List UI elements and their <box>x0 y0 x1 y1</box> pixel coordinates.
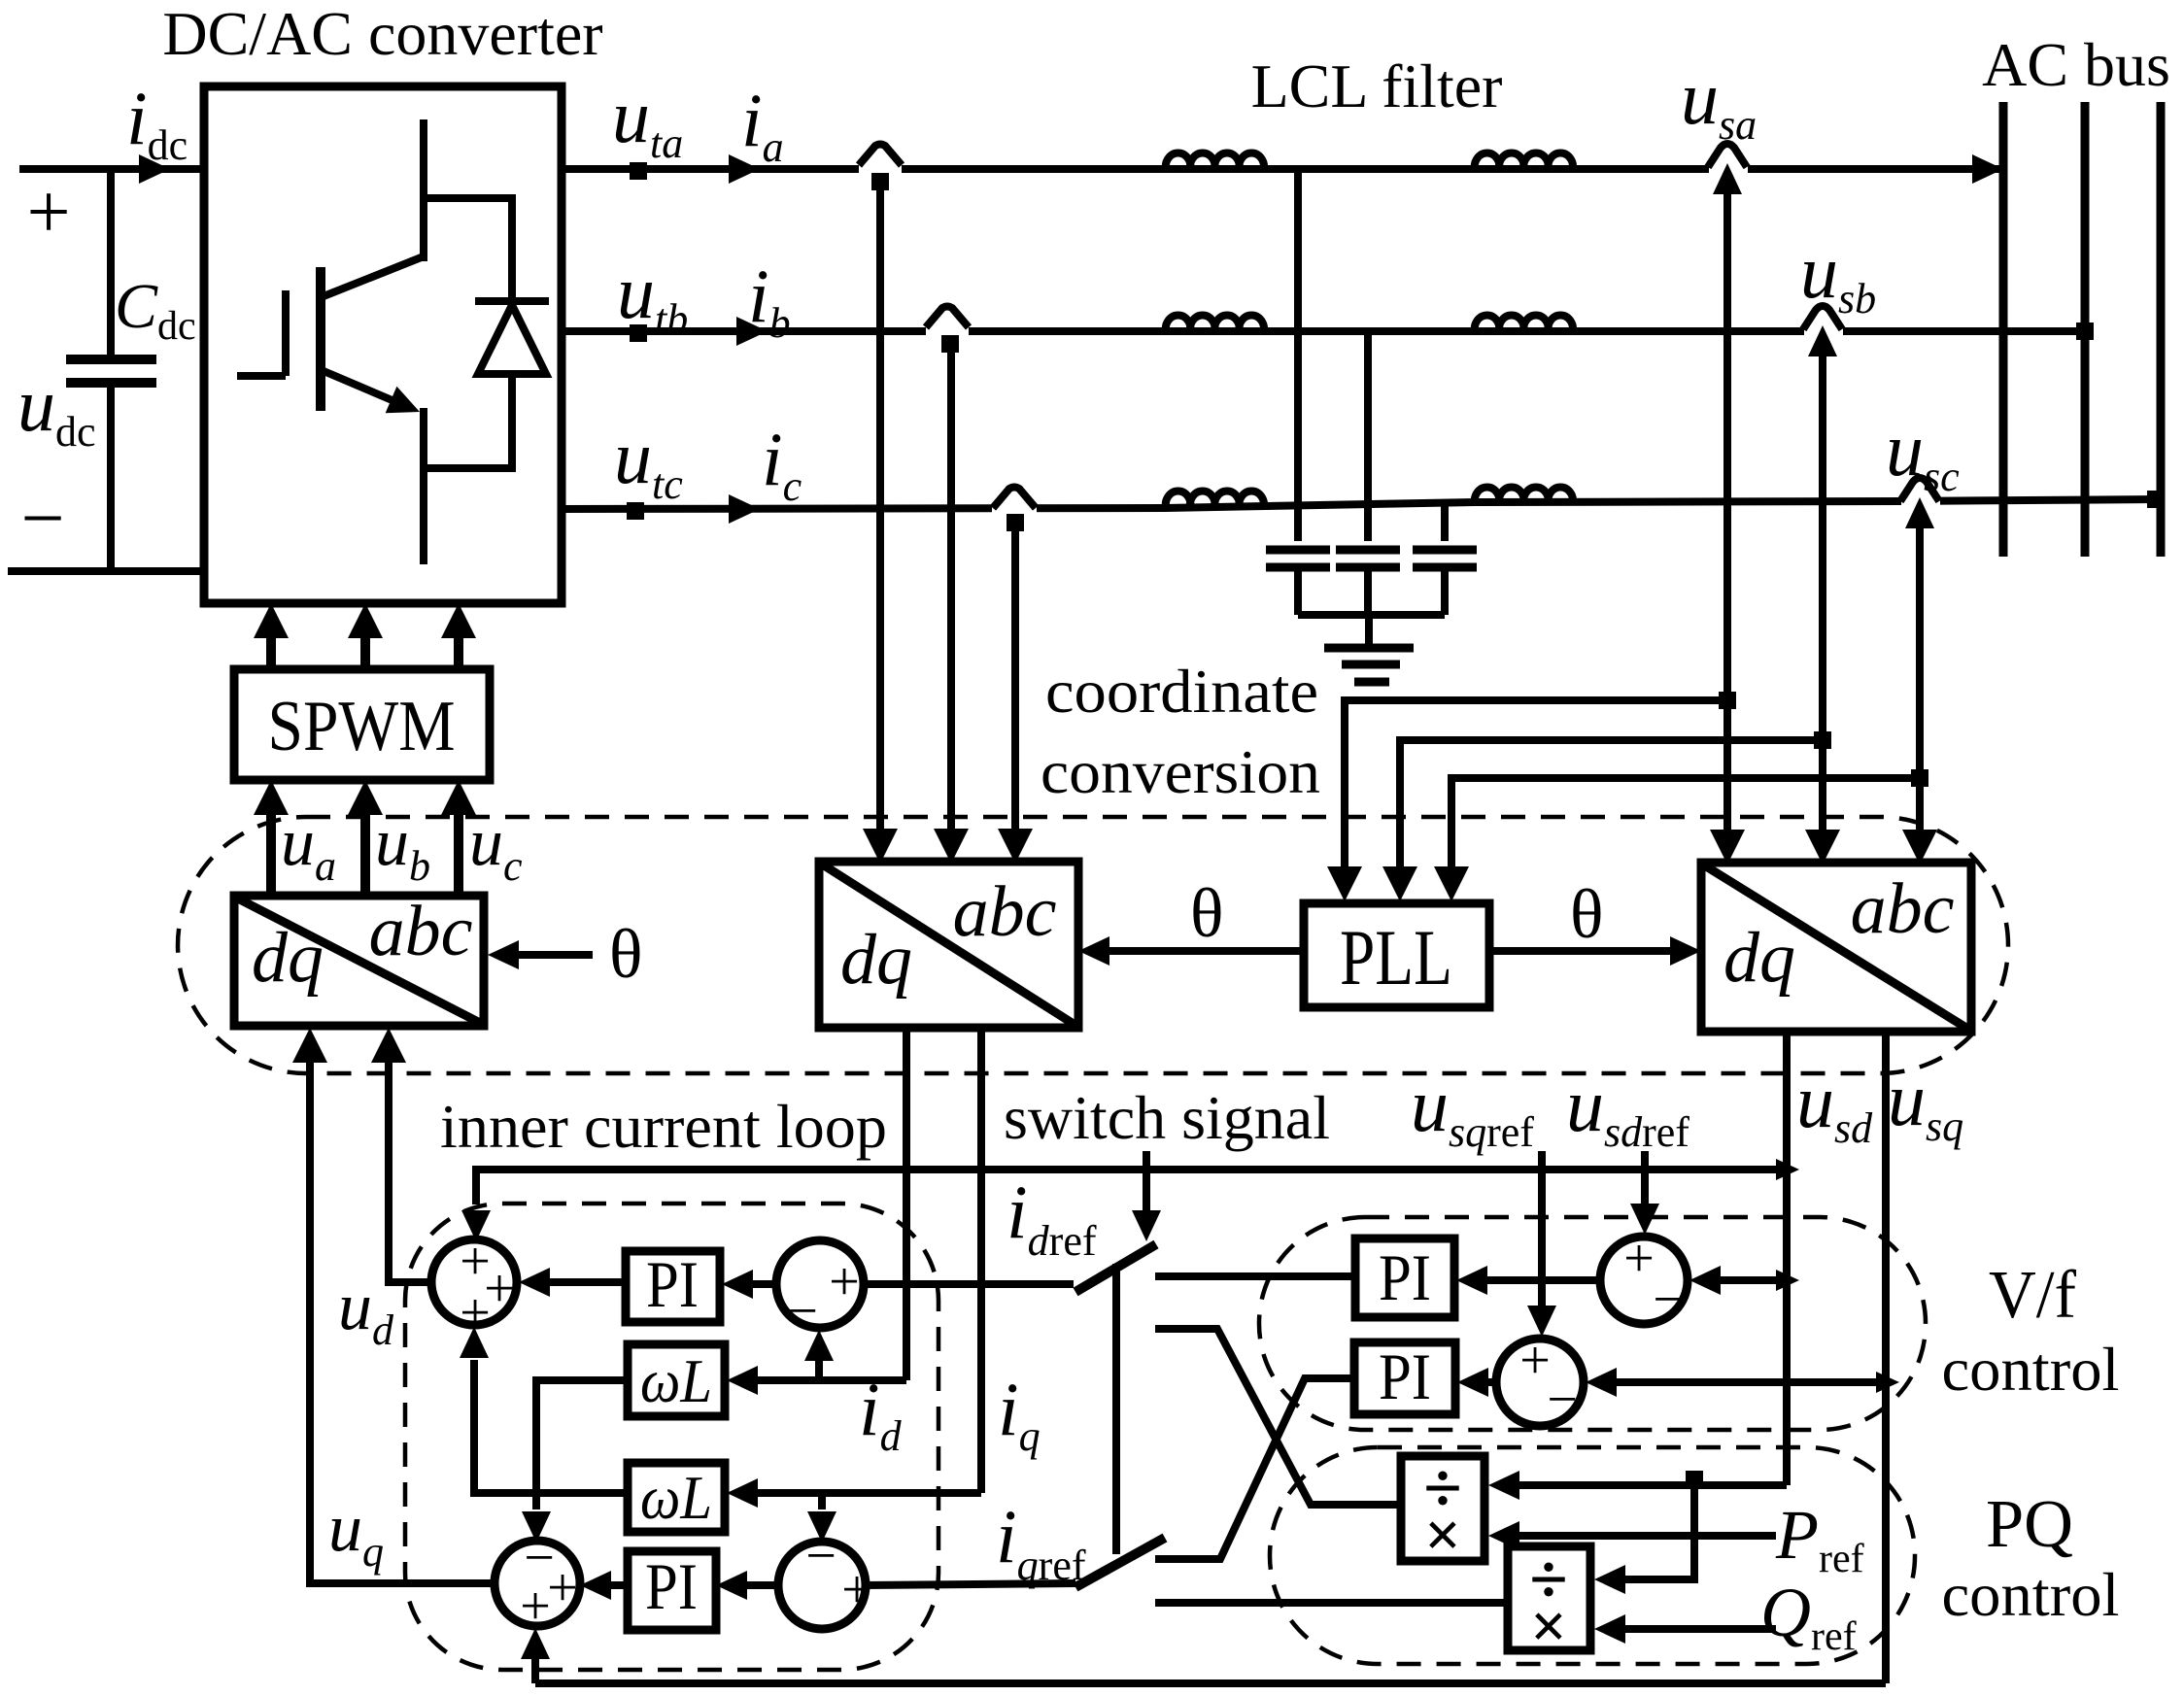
dashed region coordinate conversion <box>178 817 2008 1073</box>
converter box U1 <box>204 86 562 603</box>
switch i_dref blade <box>1075 1244 1156 1292</box>
wire u_sb to PLL elbow <box>1400 740 1823 868</box>
arrow i_c into abc/dq <box>998 829 1033 864</box>
arrow i_b into abc/dq <box>934 829 969 864</box>
wire diode top connection <box>424 198 512 303</box>
wire V/f subtractor 1 to PI <box>1487 1276 1600 1284</box>
switch gang link <box>1112 1264 1120 1554</box>
current sensor bump phase B <box>926 323 969 339</box>
subtractor q <box>778 1542 866 1629</box>
voltage sensor bump u_sa <box>1709 161 1748 177</box>
arrow u_sa into right abc/dq <box>1710 830 1745 865</box>
block PQ divider 1 <box>1401 1449 1484 1571</box>
block PI q-axis <box>628 1551 716 1630</box>
arrow u_sc into right abc/dq <box>1902 830 1937 865</box>
wire u_sq feedforward bottom line <box>535 1679 1886 1687</box>
node phase B bus dot <box>2076 322 2094 340</box>
arrow u_sc up <box>1905 497 1934 528</box>
transistor Q1 IGBT collector lead <box>420 119 427 261</box>
wire u_sb measurement line <box>1819 353 1826 831</box>
wire subtractor d to PI_d <box>753 1280 776 1288</box>
svg-text:+: + <box>26 170 70 255</box>
wire i_c measurement line <box>1011 523 1019 831</box>
summing junction d <box>431 1239 517 1325</box>
arrow ub into SPWM <box>360 813 370 896</box>
wire Q_ref into divider 2 <box>1625 1625 1776 1633</box>
arrow u_sq junction at V/f <box>1876 1372 1899 1393</box>
wire subtractor q to PI_q <box>747 1581 778 1589</box>
arrow i_b direction <box>736 317 768 346</box>
arrow i_a into abc/dq <box>863 829 898 864</box>
svg-text:V/f: V/f <box>1989 1258 2077 1333</box>
svg-text:θ: θ <box>609 915 643 993</box>
svg-text:ωL: ωL <box>640 1463 712 1532</box>
wire i_q into omega-L 2 <box>758 1489 981 1497</box>
wire u_sd branch down to divider 2 <box>1625 1485 1694 1579</box>
arrow u_q into left dq box <box>292 1028 327 1063</box>
current sensor bump phase C <box>992 500 1037 516</box>
transistor Q1 emitter arrow <box>386 387 426 425</box>
arrow i_c direction <box>729 494 760 524</box>
wire sum q bottom input <box>531 1659 539 1683</box>
AC bus bar 3 <box>2157 102 2166 557</box>
inductor Lb2 <box>1475 316 1573 331</box>
node u_sc junction dot <box>1911 769 1928 787</box>
svg-text:+: + <box>547 1558 578 1618</box>
transistor Q1 gate lead <box>237 372 286 380</box>
V/f subtractor 1 <box>1600 1237 1688 1324</box>
svg-text:PLL: PLL <box>1340 913 1452 1001</box>
arrow u_sc into PLL <box>1434 866 1469 901</box>
LCL capacitor Ca <box>1266 550 1330 567</box>
node u_ta tap dot <box>630 162 647 180</box>
wire DC negative rail <box>8 567 204 575</box>
arrow switch signal <box>1143 1151 1150 1210</box>
svg-text:abc: abc <box>1851 869 1955 949</box>
wire PI_d to sum d <box>550 1278 626 1286</box>
arrow SPWM to converter c <box>454 635 463 669</box>
block middle abc/dq <box>819 862 1078 1028</box>
arrow u_sd feedforward junction <box>1776 1159 1799 1180</box>
arrow i_a direction <box>729 154 760 184</box>
LCL capacitor Cc <box>1413 550 1477 567</box>
block omega-L 2 <box>628 1463 725 1532</box>
wire i_d into omega-L 1 <box>758 1376 906 1384</box>
wire i_d into subtractor d bottom <box>815 1359 823 1380</box>
svg-text:abc: abc <box>369 892 473 971</box>
arrow u_d into left dq box <box>371 1028 406 1063</box>
arrow into sum d top <box>461 1210 491 1241</box>
wire i_dref into subtractor d <box>864 1280 1074 1288</box>
svg-text:control: control <box>1942 1335 2120 1404</box>
node u_sb junction dot <box>1814 731 1831 749</box>
svg-text:switch signal: switch signal <box>1004 1084 1330 1152</box>
block V/f PI 2 <box>1354 1342 1455 1414</box>
block V/f PI 1 <box>1355 1238 1454 1317</box>
LCL capacitor Cb <box>1336 550 1400 567</box>
svg-text:ωL: ωL <box>640 1346 712 1415</box>
wire u_q output <box>310 1063 495 1583</box>
wire capacitor Ca bottom stub <box>1294 567 1302 615</box>
node phase B capacitor tap <box>1364 331 1372 541</box>
wire u_sd tap into V/f subtractor 1 <box>1721 1276 1787 1284</box>
svg-text:AC bus: AC bus <box>1982 30 2170 99</box>
wire u_sq from right box <box>1882 1032 1890 1683</box>
svg-text:+: + <box>829 1252 860 1312</box>
wire V/f subtractor 2 to PI 2 <box>1488 1378 1496 1386</box>
wire diode bottom connection <box>424 374 512 468</box>
svg-text:+: + <box>520 1577 551 1637</box>
switch i_dref upper contact from V/f PI <box>1155 1272 1355 1280</box>
block omega-L 1 <box>628 1344 725 1416</box>
svg-text:PQ: PQ <box>1986 1487 2073 1562</box>
arrow uc into SPWM <box>454 813 463 896</box>
inductor La2 <box>1475 153 1573 169</box>
block right abc/dq <box>1701 863 1971 1032</box>
wire capacitor common bus <box>1298 611 1445 619</box>
wire u_sc measurement line <box>1916 524 1924 831</box>
inductor La1 <box>1166 153 1264 169</box>
block PLL <box>1304 903 1489 1007</box>
wire omega-L 2 output to sum d <box>474 1360 628 1493</box>
arrow u_sa up <box>1713 163 1742 194</box>
wire u_sa to PLL elbow <box>1345 700 1727 868</box>
wire capacitor bottom lead <box>107 383 115 571</box>
node phase C capacitor tap <box>1441 503 1449 541</box>
wire DC positive rail <box>19 165 204 173</box>
wire i_q from middle box <box>977 1028 985 1493</box>
switch i_dref lower contact diagonal from PQ divider <box>1155 1329 1401 1505</box>
wire u_sd feedforward top line <box>476 1170 1787 1204</box>
svg-text:−: − <box>787 1281 818 1341</box>
svg-text:×: × <box>1530 1591 1567 1662</box>
dashed region V/f control <box>1259 1217 1926 1430</box>
inductor Lc1 <box>1166 492 1264 507</box>
node i_b sensor dot <box>941 335 959 353</box>
svg-text:LCL filter: LCL filter <box>1251 51 1503 120</box>
block PQ divider 2 <box>1508 1541 1590 1662</box>
svg-text:inner current loop: inner current loop <box>440 1093 887 1161</box>
wire u_sa measurement line <box>1723 190 1731 831</box>
svg-text:PI: PI <box>1379 1240 1431 1314</box>
wire i_b measurement line <box>947 344 955 831</box>
inductor Lb1 <box>1166 316 1264 331</box>
arrow u_sa into PLL <box>1327 866 1362 901</box>
transistor Q1 gate bar <box>282 290 290 376</box>
svg-text:θ: θ <box>1190 874 1224 952</box>
wire phase A <box>562 165 2003 173</box>
block left dq/abc <box>234 892 484 1026</box>
voltage sensor bump u_sb <box>1804 323 1843 339</box>
voltage sensor bump u_sc <box>1901 493 1940 509</box>
svg-text:−: − <box>20 476 64 561</box>
node u_tb tap dot <box>630 324 647 342</box>
arrow u_sb into right abc/dq <box>1805 830 1840 865</box>
switch i_qref blade <box>1075 1538 1165 1587</box>
wire u_sc to PLL elbow <box>1451 778 1920 868</box>
switch i_qref upper contact diagonal from V/f PI2 <box>1155 1378 1354 1559</box>
diode D1 triangle <box>478 305 546 374</box>
wire u_sd into divider 1 <box>1519 1481 1787 1489</box>
svg-text:control: control <box>1942 1560 2120 1629</box>
svg-text:PI: PI <box>646 1247 699 1321</box>
node phase A capacitor tap <box>1294 169 1302 541</box>
wire PI_q to sum q <box>611 1581 628 1589</box>
svg-text:−: − <box>805 1526 836 1586</box>
arrow phase A into AC bus <box>1972 154 2003 184</box>
arrow ua into SPWM <box>266 813 276 896</box>
wire u_d output <box>389 1063 431 1282</box>
wire capacitor Cc bottom stub <box>1441 567 1449 615</box>
node u_sa junction dot <box>1719 692 1736 709</box>
wire capacitor top lead <box>107 169 115 359</box>
diode D1 cathode bar <box>475 297 549 305</box>
node phase C bus dot <box>2147 491 2165 508</box>
svg-text:dq: dq <box>840 920 912 1000</box>
svg-text:dq: dq <box>252 918 324 998</box>
svg-text:θ: θ <box>1570 875 1604 953</box>
block SPWM <box>234 669 490 780</box>
switch i_qref lower contact from PQ divider 2 <box>1155 1599 1508 1607</box>
wire u_sqref down <box>1538 1151 1546 1306</box>
wire PLL theta to right box <box>1489 947 1670 955</box>
svg-text:+: + <box>841 1560 872 1620</box>
transistor Q1 emitter diagonal <box>324 371 408 407</box>
wire PLL theta to middle box <box>1109 947 1304 955</box>
wire phase B <box>562 327 2085 335</box>
svg-text:abc: abc <box>953 872 1057 952</box>
svg-text:PI: PI <box>645 1549 698 1623</box>
wire i_qref into subtractor q <box>866 1583 1075 1585</box>
wire phase C <box>562 499 2159 509</box>
arrow u_sb into PLL <box>1382 866 1417 901</box>
node u_tc tap dot <box>627 502 644 520</box>
svg-text:PI: PI <box>1379 1340 1431 1413</box>
block PI d-axis <box>626 1251 720 1322</box>
wire P_ref into divider 1 <box>1519 1532 1776 1540</box>
wire i_d from middle box <box>903 1028 910 1380</box>
inductor Lc2 <box>1475 488 1573 503</box>
svg-text:×: × <box>1424 1500 1461 1571</box>
current sensor bump phase A <box>859 161 902 177</box>
AC bus bar 2 <box>2081 102 2090 557</box>
svg-text:dq: dq <box>1723 918 1795 998</box>
AC bus bar 1 <box>1999 102 2008 557</box>
transistor Q1 emitter lead <box>420 408 427 564</box>
subtractor d <box>776 1240 864 1328</box>
arrow theta into left dq/abc <box>519 951 593 959</box>
svg-text:coordinate: coordinate <box>1045 658 1318 726</box>
capacitor Cdc <box>66 355 156 364</box>
dashed region inner current loop <box>405 1204 938 1670</box>
svg-text:conversion: conversion <box>1041 738 1320 806</box>
node i_a sensor dot <box>871 173 889 190</box>
transistor Q1 collector diagonal <box>324 256 424 296</box>
arrow u_sb up <box>1808 325 1837 356</box>
arrow SPWM to converter a <box>266 635 276 669</box>
svg-text:−: − <box>1547 1370 1578 1430</box>
transistor Q1 body bar <box>316 267 325 411</box>
svg-text:+: + <box>1519 1331 1551 1391</box>
wire i_q branch to subtractor q <box>818 1493 826 1509</box>
node u_sd branch junction <box>1686 1471 1703 1488</box>
svg-text:DC/AC converter: DC/AC converter <box>162 0 602 68</box>
wire u_sdref down <box>1641 1151 1649 1204</box>
node i_c sensor dot <box>1007 514 1024 531</box>
arrow i_dc direction <box>139 154 170 184</box>
dashed region PQ control <box>1270 1447 1915 1664</box>
ground symbol <box>1324 644 1414 653</box>
svg-text:SPWM: SPWM <box>268 687 456 766</box>
V/f subtractor 2 <box>1496 1339 1584 1426</box>
wire ground stem <box>1365 615 1373 645</box>
wire omega-L 1 output to sum q <box>536 1380 628 1509</box>
wire u_sq tap into V/f subtractor 2 <box>1617 1378 1886 1386</box>
wire u_sd from right box <box>1783 1032 1791 1485</box>
arrow SPWM to converter b <box>360 635 370 669</box>
svg-text:+: + <box>1623 1229 1655 1289</box>
svg-text:−: − <box>1653 1270 1684 1330</box>
summing junction q <box>495 1541 580 1626</box>
wire i_a measurement line <box>876 182 884 831</box>
arrow u_sd junction at V/f <box>1776 1270 1799 1291</box>
wire capacitor Cb bottom stub <box>1364 567 1372 619</box>
